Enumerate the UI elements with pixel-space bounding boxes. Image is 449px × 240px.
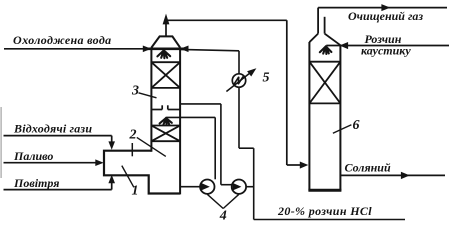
svg-text:6: 6 — [353, 118, 360, 133]
svg-text:Очищений газ: Очищений газ — [348, 9, 423, 23]
svg-text:3: 3 — [131, 84, 139, 99]
svg-text:Паливо: Паливо — [13, 149, 53, 163]
svg-text:Соляний: Соляний — [345, 161, 391, 175]
svg-text:2: 2 — [129, 128, 137, 143]
svg-text:Охолоджена вода: Охолоджена вода — [13, 33, 111, 47]
svg-text:20-% розчин HCl: 20-% розчин HCl — [277, 204, 372, 218]
svg-text:1: 1 — [132, 184, 139, 199]
svg-text:Повітря: Повітря — [13, 176, 59, 190]
svg-text:4: 4 — [219, 209, 227, 224]
svg-text:каустику: каустику — [361, 44, 411, 58]
svg-text:Відходячі гази: Відходячі гази — [13, 122, 92, 136]
svg-text:5: 5 — [263, 71, 270, 86]
